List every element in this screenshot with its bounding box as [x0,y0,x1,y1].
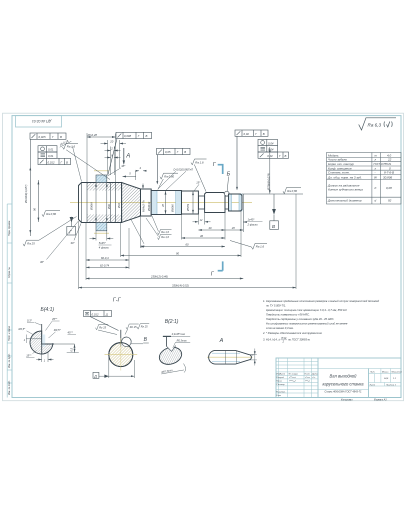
svg-text:0,02: 0,02 [244,132,250,136]
end face extension line [242,194,244,232]
dim 62-0,74 [86,266,129,268]
FCF symmetry 0,012 D [84,311,119,331]
svg-text:230h12(-0,46): 230h12(-0,46) [150,274,168,278]
svg-text:28: 28 [231,226,235,230]
svg-text:0,012: 0,012 [48,160,55,164]
svg-text:Дата: Дата [311,374,319,376]
svg-text:0,05: 0,05 [165,150,171,154]
sheet edge [3,113,404,401]
FCF stack left [38,146,71,165]
svg-text:Ø60k6: Ø60k6 [171,204,175,213]
svg-text:Твердость сердцевины у основан: Твердость сердцевины у основания зуба 26… [266,317,335,321]
section mark G lower [222,261,224,270]
svg-text:Твердость поверхности +58 HRC.: Твердость поверхности +58 HRC. [266,313,310,317]
FCF runout 0,008 [108,132,152,174]
svg-text:0,08: 0,08 [386,186,392,190]
title block [276,358,401,398]
svg-text:Утв.: Утв. [276,395,281,397]
G-G bottom dim and datum D [99,356,134,378]
FCF stack right [258,139,289,158]
svg-text:ДП 44.02.01: ДП 44.02.01 [32,119,52,123]
relief groove [198,196,204,209]
svg-text:R0,5*: R0,5* [54,328,62,332]
svg-text:Б(4:1): Б(4:1) [41,307,55,313]
svg-text:Вал выходной: Вал выходной [330,374,358,379]
drawing frame [12,116,401,398]
svg-text:Лит.: Лит. [369,371,376,373]
circle callout B [224,191,229,196]
datum V right [273,194,275,209]
svg-text:№ докум.: № докум. [289,373,299,376]
view A keyway shape [207,356,253,358]
FCF runout 0,025 [30,133,66,139]
svg-text:60-0,4: 60-0,4 [101,256,109,260]
svg-text:60: 60 [186,242,189,246]
svg-text:Норм. исх. контур: Норм. исх. контур [328,162,354,166]
svg-text:В: В [184,150,186,154]
roughness Ra 0,80 journal [158,173,178,189]
svg-text:Разраб.: Разраб. [276,377,284,379]
svg-text:слоя не менее 0,3 мм.: слоя не менее 0,3 мм. [266,326,294,330]
svg-text:40: 40 [209,226,212,230]
section O58f9 [182,191,199,214]
roughness Ra 25 bottom-left [23,217,77,247]
svg-text:биение зубчатого венца: биение зубчатого венца [328,188,363,192]
svg-text:4 фаски: 4 фаски [99,246,110,250]
arrow at M64 shoulder [142,184,144,189]
svg-text:Инв. № подл.: Инв. № подл. [8,380,11,395]
svg-text:Ra 6,3: Ra 6,3 [368,123,382,128]
svg-text:90: 90 [176,251,179,255]
dim 5x45 keyway chamfers [90,231,114,241]
dim 60 [140,216,142,248]
journal section O60k6 [151,191,157,215]
svg-text:92: 92 [388,199,392,203]
svg-text:Масштаб: Масштаб [392,371,403,373]
roughness flags under journal [146,216,172,240]
svg-text:0,02: 0,02 [267,154,273,158]
svg-text:Лист: Лист [369,384,376,386]
svg-text:-: - [375,171,376,175]
svg-text:46: 46 [200,234,203,238]
svg-text:8-7-6-В: 8-7-6-В [384,171,394,175]
svg-text:0,5: 0,5 [71,347,74,351]
svg-text:Д: Д [93,374,97,378]
svg-text:0,008: 0,008 [124,134,131,138]
FCF runout 0,05 [157,148,190,183]
gear section hatch bottom band [87,215,122,223]
svg-text:30,806: 30,806 [383,175,393,179]
svg-text:2. * Размеры обеспечиваются ин: 2. * Размеры обеспечиваются инструментом… [262,331,323,335]
svg-text:Н.контр.: Н.контр. [276,391,286,393]
dim 12 groove [193,213,211,225]
svg-text:Цементация: толщина слоя цемен: Цементация: толщина слоя цементации h 0,… [266,308,348,312]
svg-text:В: В [263,132,265,136]
svg-text:Сталь 40ХН2МА ГОСТ 4543-71: Сталь 40ХН2МА ГОСТ 4543-71 [324,390,362,393]
svg-text:0,012: 0,012 [92,312,99,316]
roughness flag near V [137,324,149,329]
dim 90 [121,211,241,257]
svg-text:2 фаски: 2 фаски [247,223,259,227]
FCF runout 0,02 right [235,130,268,189]
svg-text:Формат А3: Формат А3 [374,398,387,401]
svg-text:Ø100h9(-0,087): Ø100h9(-0,087) [24,185,28,204]
top-left designation box [16,116,62,127]
svg-text:Делительный диаметр: Делительный диаметр [327,199,362,203]
svg-text:Ra 25: Ra 25 [27,242,35,246]
detail V dims [163,335,171,337]
G-G section circle [109,343,133,367]
svg-text:В: В [66,160,68,164]
keyway dims 20 2 8 [101,140,127,175]
keyway local section top [96,175,107,183]
svg-text:0,04: 0,04 [268,148,274,152]
groove B neck [225,196,229,209]
svg-text:В: В [272,224,275,229]
rotated diameter labels [24,173,271,213]
svg-text:Ø96h9: Ø96h9 [90,202,94,211]
svg-text:20: 20 [109,140,113,144]
svg-text:IT14: IT14 [281,336,287,340]
left margin strip [7,204,12,398]
detail B groove profile [30,331,53,354]
svg-text:Лист: Лист [279,374,286,376]
svg-text:Справ. №: Справ. № [8,267,11,278]
svg-text:В: В [146,134,148,138]
dim 330 overall [79,194,297,289]
svg-text:R0,3max: R0,3max [177,340,188,343]
svg-text:62-0,74: 62-0,74 [100,263,110,267]
dim O100 vertical left [30,139,38,236]
svg-text:Ra 1,6: Ra 1,6 [67,145,76,149]
dim 40 [198,229,225,231]
svg-text:Перв. примен.: Перв. примен. [8,220,11,236]
dim O79 line [269,147,271,194]
svg-text:Т.контр.: Т.контр. [276,384,285,386]
svg-text:Rz 25: Rz 25 [130,325,137,329]
svg-text:24,6: 24,6 [383,377,389,380]
svg-text:А: А [125,154,130,160]
end section [229,194,232,211]
svg-text:Пров.: Пров. [276,381,282,383]
view A width dim [250,349,257,366]
svg-text:330h14(-0,52): 330h14(-0,52) [172,284,189,288]
svg-text:Листов 1: Листов 1 [385,384,397,386]
svg-text:Ra 0,80: Ra 0,80 [287,189,297,193]
svg-text:0,4х45°max: 0,4х45°max [172,333,186,336]
svg-text:Rz 25: Rz 25 [99,325,106,329]
general roughness Ra 6,3 [359,118,396,130]
roughness Ra 0,80 end [283,188,301,194]
gear parameter table [327,153,402,205]
svg-text:Ø64h12: Ø64h12 [147,201,151,212]
svg-text:Г-Г: Г-Г [113,297,122,303]
svg-text:Ø90: Ø90 [107,204,111,210]
svg-text:0,01: 0,01 [48,154,54,158]
svg-text:Д: Д [105,312,108,316]
svg-text:0,01: 0,01 [48,148,54,152]
svg-text:В: В [285,154,287,158]
dim 46 [182,213,226,240]
top edge extension to roughness flag [242,193,303,195]
svg-text:по ТУ 5.009-Т/1.: по ТУ 5.009-Т/1. [266,304,286,308]
svg-text:по ГОСТ 30893-м.: по ГОСТ 30893-м. [288,338,311,342]
svg-text:Подп. и дата: Подп. и дата [8,325,11,341]
svg-text:Ra 0,80: Ra 0,80 [46,212,56,216]
svg-text:В(2:1): В(2:1) [165,319,179,325]
svg-text:В: В [60,135,62,139]
svg-text:D-0,02(0,08)ТнП: D-0,02(0,08)ТнП [174,167,194,171]
svg-text:М64х2-7h: М64х2-7h [141,200,145,212]
svg-text:0,025: 0,025 [39,135,46,139]
roughness Ra 1,6 right lower [230,241,267,250]
svg-text:Число зубьев: Число зубьев [328,158,347,162]
svg-text:F: F [375,186,377,190]
cone section hatched [122,183,141,223]
svg-text:Подп.: Подп. [305,373,311,376]
main centerline [70,202,252,204]
svg-text:Масса: Масса [382,371,389,373]
thread section M64 [141,189,152,216]
gear section body [79,183,122,223]
svg-text:Инв. № дубл.: Инв. № дубл. [8,353,11,368]
svg-text:0,04: 0,04 [268,141,274,145]
detail V groove profile [157,344,184,367]
svg-text:1. Неуказанные предельные откл: 1. Неуказанные предельные отклонения раз… [263,299,380,303]
dim 28 [225,229,243,231]
svg-text:28-0,28: 28-0,28 [87,133,98,137]
diameter dim arrows inside gear [96,183,107,223]
svg-text:карусельного станка: карусельного станка [322,382,364,387]
svg-text:22: 22 [387,158,392,162]
keyway local section bottom [96,223,107,231]
section O48 [205,193,225,213]
svg-text:3. H14, h14, ±: 3. H14, h14, ± [263,338,280,342]
svg-text:Ø58f9: Ø58f9 [186,203,190,212]
datum G left [70,217,74,222]
svg-text:А: А [219,338,224,344]
svg-text:На шлифованных поверхностях це: На шлифованных поверхностях цементованны… [266,322,348,326]
roughness Ra 1,6 mid [191,159,207,191]
dim 230h12 [85,262,87,281]
roughness Ra 1,6 top-left [63,143,111,179]
svg-text:Ra 1,6: Ra 1,6 [161,230,169,234]
G-G roughness flags [96,324,139,335]
dim 60-0,4 [86,223,129,269]
svg-text:5х45°: 5х45° [99,241,107,245]
svg-text:Степень точн.: Степень точн. [328,171,350,175]
svg-text:Ra 1,6: Ra 1,6 [256,245,265,249]
svg-text:Ø94: Ø94 [117,203,121,209]
technical requirements text [262,299,380,344]
svg-text:Rz 25: Rz 25 [141,325,148,329]
roughness Ra 0,80 left [42,211,60,217]
svg-text:Ra 1,6: Ra 1,6 [161,235,169,239]
svg-text:Ra 1,6: Ra 1,6 [195,160,204,164]
gear section hatch top band [87,183,122,191]
svg-text:1х45°: 1х45° [248,218,256,222]
svg-text:R0,5*: R0,5* [19,327,27,331]
view arrow A [123,148,125,164]
svg-text:Копировал: Копировал [341,399,353,401]
dim 16-0,18 slanted [58,138,71,147]
svg-text:Дл. общ. норм. на 3 зуб.: Дл. общ. норм. на 3 зуб. [327,175,362,179]
